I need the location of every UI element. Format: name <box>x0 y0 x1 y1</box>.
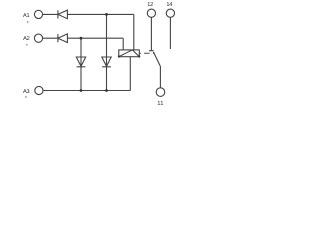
svg-text:14: 14 <box>166 2 172 8</box>
svg-text:A2: A2 <box>23 36 29 42</box>
svg-text:11: 11 <box>157 101 164 107</box>
svg-text:12: 12 <box>147 2 153 8</box>
svg-text:A3: A3 <box>23 89 29 95</box>
svg-text:A1: A1 <box>23 13 29 19</box>
